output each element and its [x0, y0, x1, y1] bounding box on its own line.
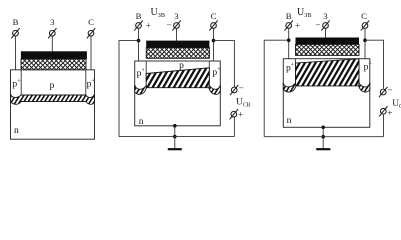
substrate dot on box bottom [173, 124, 177, 128]
wire gate [325, 28, 327, 38]
junction crescent right [209, 85, 221, 94]
wire C down into right p+ [364, 28, 366, 59]
depletion region + junction (hatched) [146, 68, 209, 88]
svg-text:p: p [179, 60, 184, 71]
svg-text:−: − [315, 20, 320, 30]
semiconductor body box [135, 61, 221, 126]
svg-text:n: n [287, 115, 292, 126]
wire B down into left p+ [288, 28, 290, 59]
svg-text:3: 3 [174, 11, 179, 21]
junction dot C [363, 38, 367, 42]
bottom wire [264, 136, 383, 138]
gate metal bar [21, 51, 87, 59]
svg-text:−: − [387, 85, 392, 95]
left loop wire [264, 40, 289, 137]
svg-text:C: C [88, 17, 94, 27]
p+ / p boundary right [208, 61, 210, 83]
substrate dot on box bottom [321, 126, 325, 130]
bottom wire [119, 136, 234, 138]
gate oxide (cross-hatched) [146, 48, 209, 59]
wire B to left p+ [15, 36, 17, 70]
svg-text:B: B [286, 11, 292, 21]
terminal plus of U_CB [230, 109, 238, 119]
semiconductor body box [283, 59, 370, 128]
svg-text:+: + [146, 20, 151, 30]
junction dot C [212, 39, 216, 43]
ground bar [168, 148, 182, 150]
svg-text:+: + [238, 110, 243, 120]
gate metal bar [296, 38, 360, 45]
dot on bottom wire [321, 135, 325, 139]
wire B down into left p+ [138, 28, 140, 61]
terminal B [11, 28, 19, 38]
terminal minus of U_CB [230, 85, 238, 95]
right loop wire lower [383, 114, 385, 137]
p+ / p boundary right [85, 70, 87, 95]
wire C to right p+ [90, 36, 92, 70]
p+ / p boundary right [358, 59, 360, 80]
dot on bottom wire [173, 135, 177, 139]
gate metal bar [146, 41, 209, 48]
right loop wire lower [233, 117, 235, 137]
svg-text:−: − [166, 20, 171, 30]
junction crescent left [135, 85, 147, 94]
terminal B [285, 20, 293, 30]
ground stem [322, 127, 324, 149]
terminal C [87, 28, 95, 38]
p+ / p boundary left [145, 61, 147, 83]
junction crescent left [283, 83, 296, 92]
terminal minus of U_C [379, 87, 387, 97]
junction crescent right [359, 83, 370, 92]
terminal plus of U_C [379, 106, 387, 116]
p-n junction band (hatched) [11, 94, 95, 104]
ground stem [174, 126, 176, 149]
svg-text:C: C [211, 11, 217, 21]
svg-text:B: B [136, 11, 142, 21]
junction dot B [287, 38, 291, 42]
gate oxide (cross-hatched) [296, 44, 360, 55]
depletion region + junction (hatched, pinched at drain) [296, 59, 360, 86]
terminal C [209, 20, 217, 30]
svg-text:n: n [14, 125, 19, 136]
junction dot B [137, 39, 141, 43]
terminal 3 [48, 28, 56, 38]
wire 3 to gate metal [51, 36, 53, 53]
svg-text:+: + [17, 78, 21, 85]
svg-text:3: 3 [50, 17, 55, 27]
svg-text:+: + [295, 20, 300, 30]
left loop wire [119, 41, 139, 137]
svg-text:+: + [291, 61, 295, 68]
terminal 3 [321, 20, 329, 30]
svg-text:p: p [50, 80, 55, 91]
svg-text:n: n [139, 116, 144, 127]
wire C down into right p+ [213, 28, 215, 61]
svg-text:B: B [13, 17, 19, 27]
svg-text:C: C [361, 11, 367, 21]
semiconductor body box [11, 70, 95, 139]
svg-text:+: + [217, 66, 221, 73]
p+ / p boundary left [20, 70, 22, 95]
svg-text:+: + [368, 60, 372, 67]
terminal B [134, 20, 142, 30]
gate oxide (cross-hatched) [21, 59, 86, 70]
wire gate [176, 28, 178, 41]
terminal C [361, 20, 369, 30]
ground bar [316, 148, 330, 150]
right loop wire upper [365, 40, 384, 88]
svg-text:+: + [141, 67, 145, 74]
right loop wire upper [214, 41, 235, 88]
svg-text:+: + [387, 108, 392, 118]
terminal 3 [172, 20, 180, 30]
svg-text:3: 3 [323, 11, 328, 21]
svg-text:−: − [239, 83, 244, 93]
svg-text:+: + [91, 78, 95, 85]
p+ / p boundary left [295, 59, 297, 80]
